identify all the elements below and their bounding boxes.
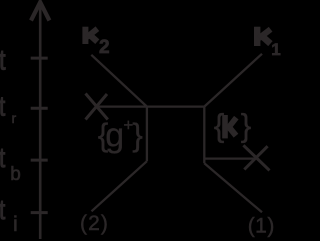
tick t bbox=[31, 57, 48, 60]
svg-text:}: } bbox=[132, 117, 143, 153]
wire horizontal top (left X to right vertex) bbox=[97, 105, 205, 107]
wire k1 incoming photon line bbox=[204, 54, 262, 107]
right X vertex cross bbox=[243, 145, 269, 170]
wire right horizontal connector to X bbox=[204, 157, 256, 159]
svg-text:g: g bbox=[105, 117, 124, 155]
time axis shaft bbox=[39, 4, 42, 239]
tick t_b bbox=[31, 159, 48, 162]
wire left vertical bbox=[146, 107, 148, 162]
axis label t_r bbox=[0, 91, 17, 126]
tick t_r bbox=[31, 107, 48, 110]
wire to (2) bbox=[92, 161, 147, 211]
time axis arrowhead bbox=[31, 2, 49, 20]
label {g+} bbox=[98, 116, 144, 155]
svg-text:r: r bbox=[12, 110, 17, 126]
tick t_i bbox=[31, 211, 48, 214]
wire k2 incoming photon line bbox=[91, 55, 147, 107]
svg-text:b: b bbox=[10, 164, 21, 185]
label k1 bbox=[257, 27, 281, 59]
wire right vertical bbox=[203, 107, 205, 164]
svg-text:t: t bbox=[0, 91, 5, 122]
svg-text:1: 1 bbox=[271, 40, 280, 59]
svg-text:2: 2 bbox=[99, 37, 110, 58]
svg-text:t: t bbox=[0, 195, 5, 226]
label {k} bbox=[214, 107, 252, 143]
wire to (1) bbox=[204, 163, 262, 212]
svg-text:(1): (1) bbox=[248, 215, 275, 238]
svg-text:t: t bbox=[0, 43, 6, 76]
left X vertex cross bbox=[86, 94, 108, 120]
svg-text:}: } bbox=[241, 107, 252, 143]
axis label t_b bbox=[0, 143, 21, 185]
axis label t_i bbox=[0, 195, 18, 236]
svg-text:t: t bbox=[0, 143, 5, 174]
svg-text:i: i bbox=[13, 212, 18, 236]
svg-text:(2): (2) bbox=[80, 212, 109, 235]
label k2 bbox=[85, 27, 109, 58]
